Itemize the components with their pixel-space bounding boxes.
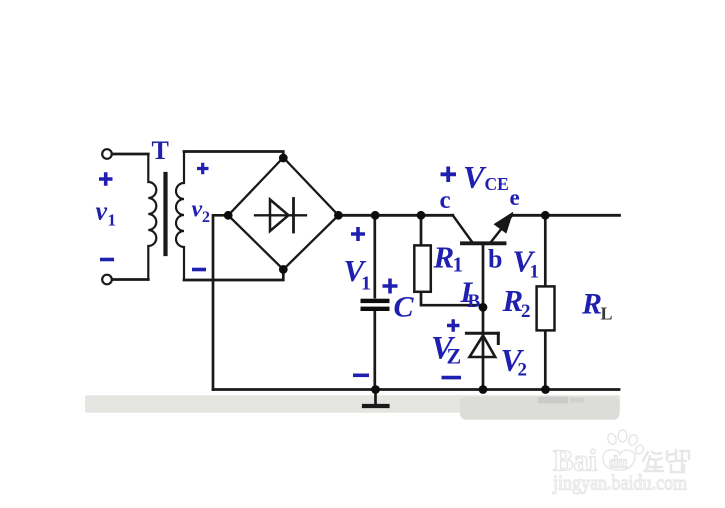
wire capacitor branch upper bbox=[373, 215, 376, 297]
bridge diode line bbox=[255, 214, 306, 216]
ground bar bbox=[364, 404, 388, 408]
transistor V1 base bar bbox=[462, 241, 505, 245]
bridge diode cathode bar bbox=[292, 199, 295, 233]
watermark Baidu text bbox=[553, 444, 627, 478]
wire secondary bottom to bridge bbox=[184, 269, 283, 280]
terminal bottom-left bbox=[102, 275, 112, 285]
node bridge bottom bbox=[279, 265, 288, 274]
node zener bottom bbox=[479, 385, 488, 394]
bridge diamond bbox=[228, 158, 338, 270]
svg-text:Z: Z bbox=[447, 344, 462, 369]
plus v1 bbox=[99, 172, 113, 185]
capacitor C plates bbox=[361, 299, 390, 311]
blue labels bbox=[96, 136, 613, 381]
svg-text:c: c bbox=[440, 187, 451, 214]
wire R2 branch lower bbox=[544, 330, 547, 389]
watermark Baidu paw bbox=[603, 430, 645, 470]
node R1 top bbox=[417, 211, 426, 220]
wire capacitor branch lower bbox=[373, 310, 376, 390]
svg-text:v: v bbox=[192, 197, 203, 223]
plus v2 bbox=[197, 163, 209, 175]
gray band A (bottom strip) bbox=[85, 395, 620, 413]
zener VZ triangle bbox=[470, 336, 496, 358]
junction node dots bbox=[224, 154, 550, 394]
transistor emitter arrow bbox=[495, 214, 511, 232]
svg-text:R: R bbox=[433, 240, 455, 275]
svg-text:2: 2 bbox=[521, 301, 531, 322]
transformer core bar bbox=[163, 174, 167, 254]
resistor R1 box bbox=[414, 245, 431, 291]
svg-text:V: V bbox=[463, 159, 487, 195]
watermark jingyan 经验 strokes bbox=[643, 450, 689, 472]
svg-text:R: R bbox=[502, 283, 524, 318]
plus VCE bbox=[441, 167, 457, 183]
resistor R2 box bbox=[537, 286, 555, 330]
top rail left segment bbox=[338, 214, 452, 217]
minus VZ bbox=[442, 376, 462, 380]
svg-text:e: e bbox=[510, 185, 520, 210]
plus C bbox=[383, 279, 398, 294]
wire R1 bottom to base node bbox=[421, 292, 483, 305]
node bridge top bbox=[279, 154, 288, 163]
node bridge right bbox=[334, 211, 343, 220]
svg-text:L: L bbox=[601, 304, 613, 324]
node base bbox=[479, 303, 488, 312]
svg-text:T: T bbox=[152, 136, 169, 165]
wire secondary top to bridge bbox=[184, 152, 283, 159]
svg-text:R: R bbox=[581, 288, 602, 321]
zener VZ cathode bar bbox=[466, 332, 498, 335]
minus v1 bbox=[100, 258, 114, 262]
svg-text:B: B bbox=[468, 291, 481, 312]
svg-text:2: 2 bbox=[202, 209, 210, 226]
svg-text:v: v bbox=[96, 197, 108, 226]
minus v2 bbox=[192, 268, 206, 272]
node emitter rail bbox=[541, 211, 550, 220]
transistor V1 collector bbox=[453, 215, 472, 241]
node R2 bottom bbox=[541, 385, 550, 394]
svg-text:1: 1 bbox=[530, 262, 540, 283]
transistor V1 emitter bbox=[492, 215, 513, 242]
plus V1 output bbox=[351, 227, 365, 241]
top rail right segment (emitter to edge) bbox=[513, 214, 620, 217]
plus VZ bbox=[447, 319, 460, 332]
svg-text:2: 2 bbox=[518, 360, 528, 381]
wire primary top bbox=[112, 153, 148, 156]
svg-text:1: 1 bbox=[453, 253, 464, 277]
svg-text:jingyan.baidu.com: jingyan.baidu.com bbox=[552, 471, 687, 495]
zener VZ right wing bbox=[497, 333, 500, 343]
svg-text:du: du bbox=[609, 453, 627, 472]
node bridge left bbox=[224, 211, 233, 220]
bridge diode triangle bbox=[270, 200, 289, 232]
wire zener branch bbox=[482, 307, 485, 389]
svg-text:C: C bbox=[394, 291, 415, 324]
gray band B (bottom-right strip) bbox=[460, 397, 620, 420]
svg-text:CE: CE bbox=[485, 174, 509, 194]
smudge remnants bbox=[538, 397, 568, 404]
wire bridge left to ground drop bbox=[213, 215, 228, 389]
bottom rail bbox=[213, 388, 619, 391]
wire R1 branch upper bbox=[420, 215, 423, 245]
wire base down to node bbox=[482, 245, 485, 307]
secondary winding L2 bbox=[176, 152, 184, 281]
wire R2 branch upper bbox=[544, 215, 547, 286]
minus V1 output bbox=[353, 373, 369, 377]
primary winding L1 bbox=[148, 154, 156, 280]
svg-text:b: b bbox=[488, 245, 502, 274]
svg-text:1: 1 bbox=[108, 211, 117, 230]
wire primary bottom bbox=[112, 278, 148, 281]
node cap top bbox=[371, 211, 380, 220]
node ground bbox=[371, 385, 380, 394]
svg-text:1: 1 bbox=[361, 273, 371, 295]
ground stub bbox=[374, 390, 377, 405]
terminal top-left bbox=[102, 149, 112, 159]
blue plus/minus signs bbox=[99, 163, 461, 378]
